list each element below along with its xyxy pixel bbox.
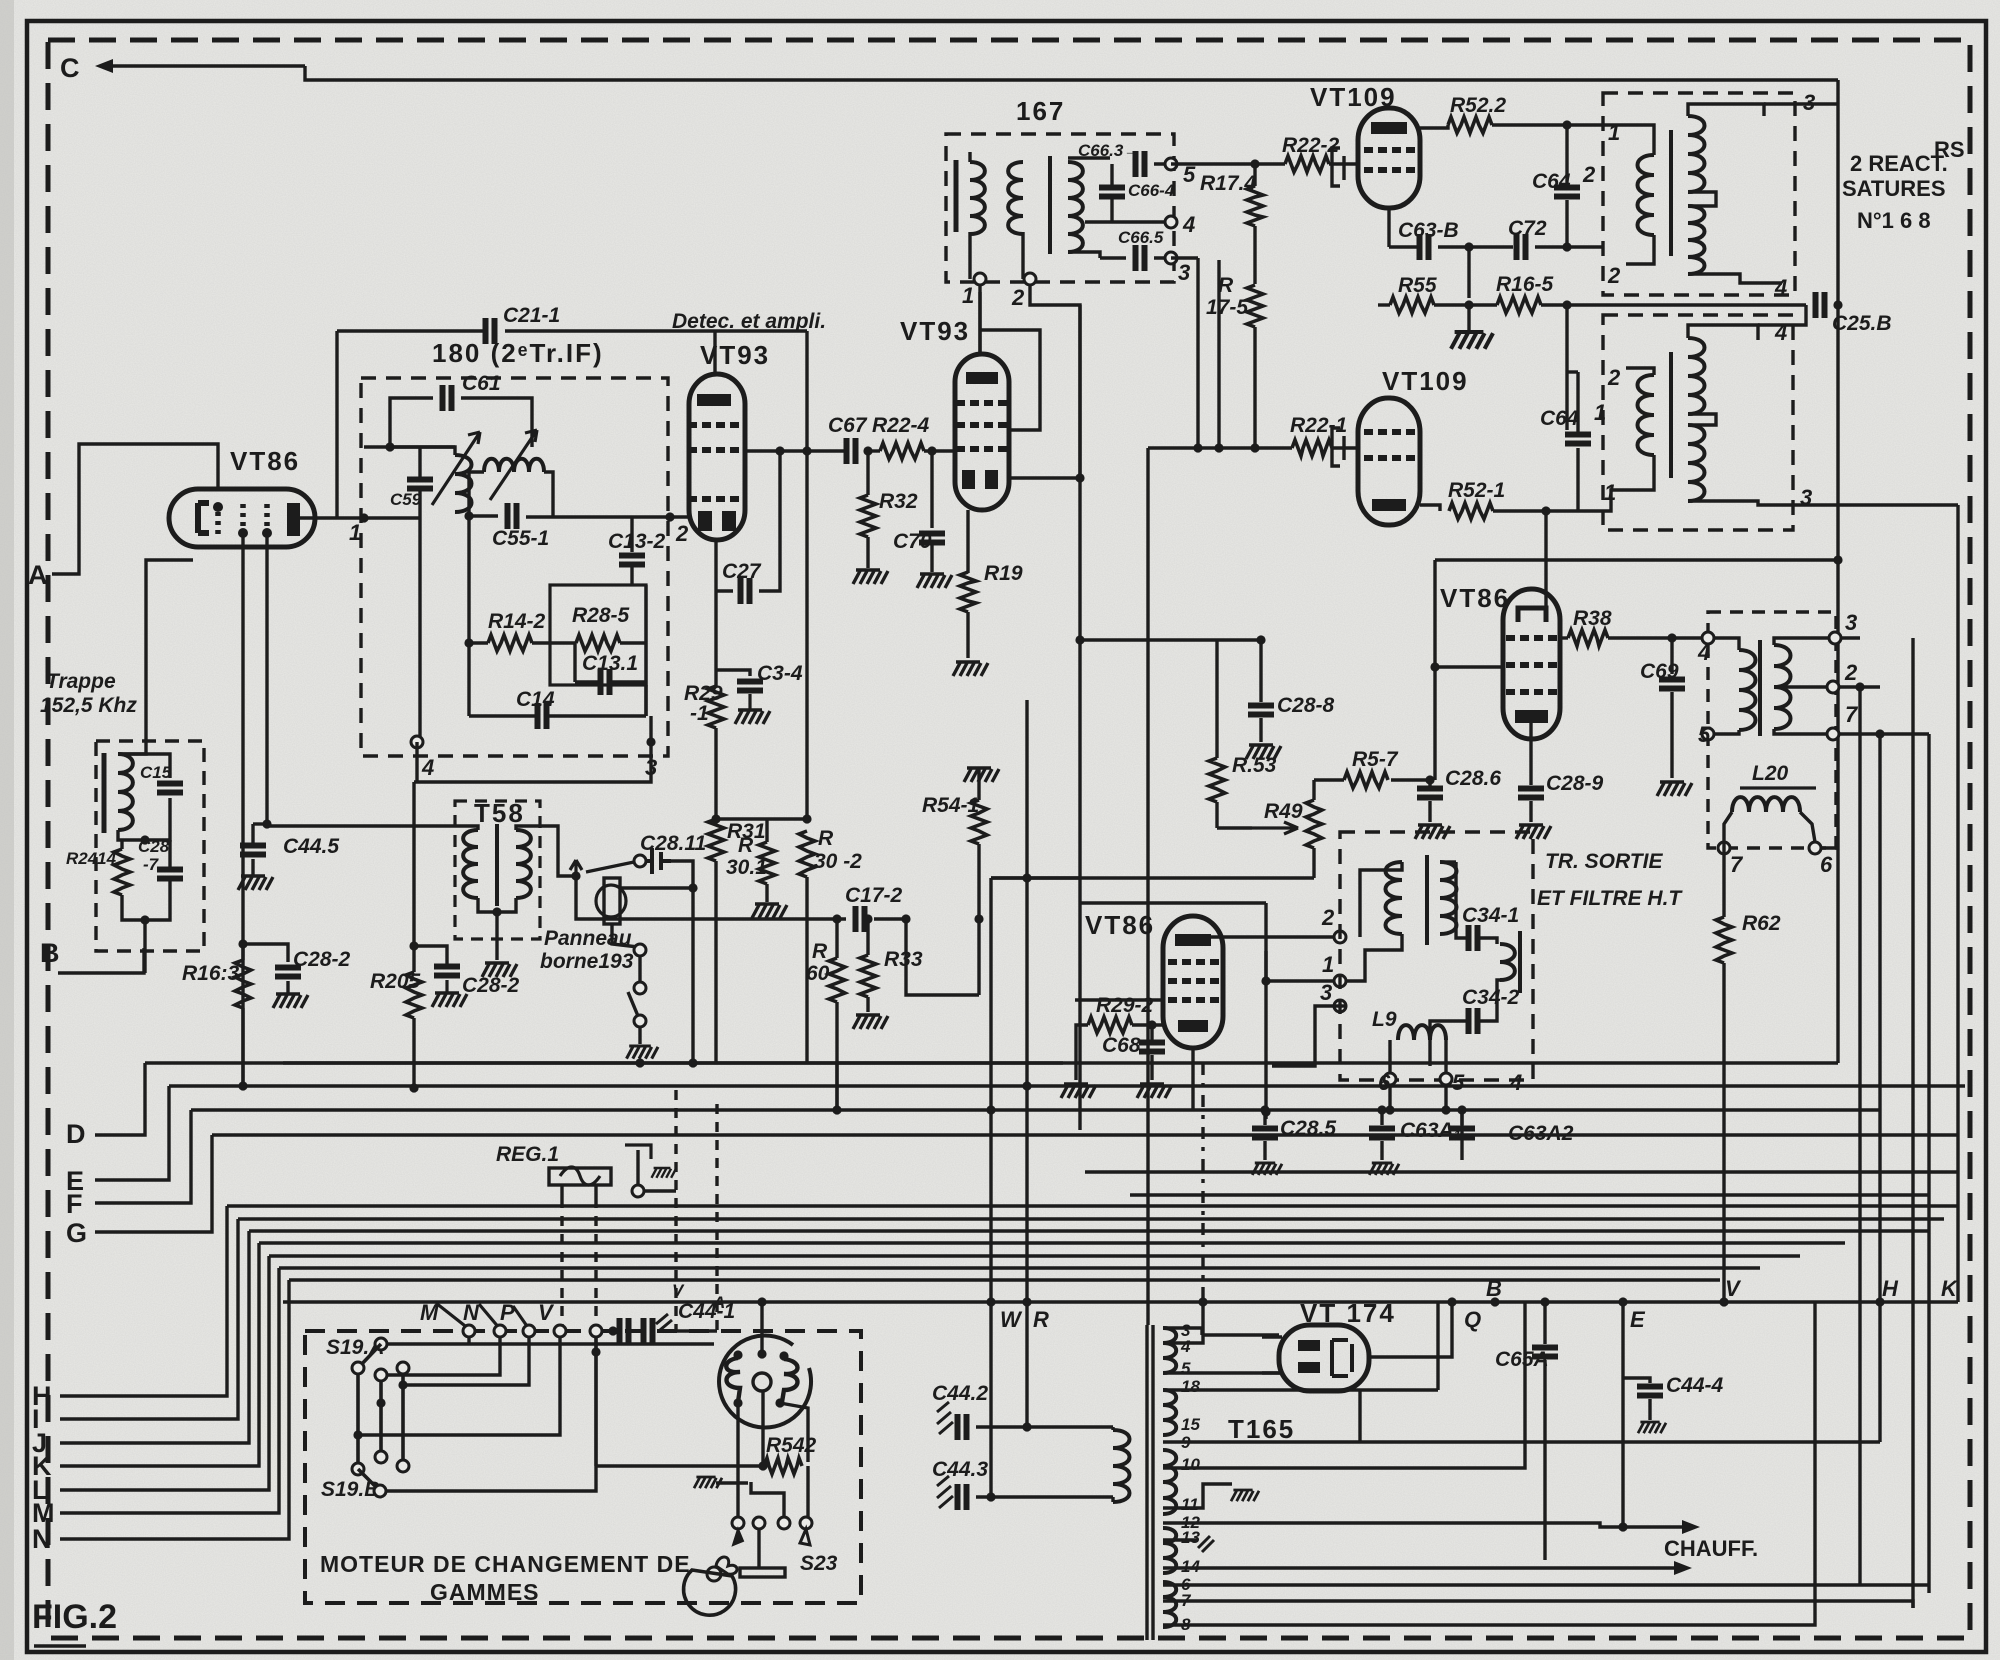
- tube VT86 second anode bracket: [1518, 608, 1546, 622]
- wire C44-2 right: [976, 1425, 1113, 1428]
- capacitor C15: [157, 784, 183, 793]
- tube VT86 third: [1163, 916, 1223, 1048]
- wire long center vertical: [1146, 448, 1149, 1325]
- wire C28-5 top: [1263, 1110, 1266, 1125]
- wire: [1460, 1110, 1463, 1141]
- resistor R14-2: [488, 635, 532, 651]
- junction: [1261, 976, 1270, 985]
- junction C44-5 tap: [262, 819, 271, 828]
- svg-text:2: 2: [1607, 365, 1621, 390]
- bus wire J: [249, 1229, 1930, 1232]
- contact: [397, 1460, 409, 1472]
- tube VT93 first cathode: [698, 511, 712, 531]
- wire tube to R38: [1560, 636, 1568, 639]
- wire C55-1 to node 2: [526, 515, 689, 518]
- wire F riser: [95, 1110, 191, 1203]
- junction: [1430, 662, 1439, 671]
- arrow coil2 tuning: [490, 430, 537, 500]
- junction: [1540, 1297, 1549, 1306]
- resistor R60: [829, 958, 845, 1002]
- wire socket pin down: [736, 1403, 739, 1517]
- coil 167 secondary: [1008, 162, 1023, 234]
- coil T165 w5: [1163, 1582, 1176, 1627]
- ground C69: [1657, 782, 1692, 796]
- svg-text:30 -2: 30 -2: [814, 850, 862, 873]
- wire C69 top: [1670, 638, 1673, 674]
- switch M blade: [436, 1303, 469, 1329]
- svg-text:1: 1: [1322, 952, 1334, 977]
- junction: [986, 1297, 995, 1306]
- svg-text:-7: -7: [143, 855, 160, 874]
- resistor R52-1: [1449, 503, 1493, 519]
- svg-text:FIG.2: FIG.2: [32, 1598, 117, 1636]
- wire C65A top: [1543, 1302, 1546, 1344]
- svg-text:C66.3→: C66.3→: [1078, 141, 1140, 160]
- svg-text:V: V: [1725, 1276, 1742, 1301]
- bus wire K: [259, 1241, 1845, 1244]
- junction: [1147, 1020, 1156, 1029]
- svg-text:R54-1: R54-1: [922, 794, 979, 817]
- svg-text:R22-1: R22-1: [1290, 414, 1347, 437]
- wire to pin3: [649, 716, 652, 742]
- pin 7 L20 box: [1827, 728, 1839, 740]
- tube VT93 first grid2: [688, 447, 739, 453]
- wire R16-5 right: [1541, 303, 1567, 306]
- coil L9: [1398, 1025, 1446, 1040]
- svg-text:5: 5: [1181, 1359, 1191, 1378]
- wire C34-1 left: [1456, 862, 1466, 938]
- wire reactor2 pin1: [1626, 455, 1654, 490]
- switch blade C28-11: [586, 862, 634, 872]
- capacitor C14: [538, 703, 547, 729]
- svg-text:C3-4: C3-4: [757, 662, 803, 685]
- ground R30-1: [752, 904, 787, 918]
- svg-text:180 (2ᵉTr.IF): 180 (2ᵉTr.IF): [432, 338, 604, 368]
- junction: [1193, 443, 1202, 452]
- wire reactor2 mid link: [1688, 414, 1716, 425]
- tube VT93 first: [689, 374, 745, 540]
- wire pin3 to left: [414, 742, 651, 782]
- wire center vertical b: [1078, 305, 1081, 480]
- capacitor C64-2: [1554, 188, 1580, 197]
- wire W above: [989, 1245, 992, 1302]
- coil primary tunable: [455, 455, 472, 512]
- coil trap L: [118, 754, 133, 830]
- resistor R29-2: [1088, 1017, 1132, 1033]
- capacitor C66-4: [1099, 188, 1125, 197]
- tube VT86 first grid3: [264, 504, 270, 528]
- motor rotor: [684, 1570, 736, 1615]
- wire C68 top: [1150, 1025, 1153, 1040]
- junction: [492, 907, 501, 916]
- wire VT86 plate to node 1: [299, 516, 364, 519]
- wire R17-5 bottom: [1253, 327, 1256, 448]
- junction: [863, 446, 872, 455]
- wire to TR pin1: [1266, 903, 1334, 981]
- wire socket to bus: [760, 1302, 763, 1354]
- svg-text:C44.3: C44.3: [932, 1458, 988, 1481]
- wire down to C64-1: [1565, 305, 1568, 430]
- coil T165 w2: [1163, 1390, 1176, 1435]
- svg-text:T165: T165: [1228, 1414, 1295, 1444]
- junction C44-1 left: [608, 1326, 617, 1335]
- wire pin18 riser: [1436, 1302, 1439, 1390]
- resistor R52-2: [1448, 117, 1492, 133]
- svg-text:E: E: [1630, 1307, 1646, 1332]
- junction: [1441, 1105, 1450, 1114]
- wire C70 top: [930, 451, 933, 528]
- svg-text:R52.2: R52.2: [1450, 94, 1506, 117]
- wire VT86 cathode down: [241, 536, 244, 1086]
- wire R32 bottom: [866, 537, 869, 568]
- svg-text:4: 4: [1180, 1337, 1191, 1356]
- contact C28-11: [634, 855, 646, 867]
- wire R52-1 right: [1493, 509, 1578, 512]
- coil L20: [1732, 797, 1800, 812]
- ground C44-5: [238, 876, 273, 890]
- bus wire extra lower: [1130, 1193, 1930, 1196]
- svg-text:P: P: [500, 1300, 515, 1325]
- wire R33 top: [866, 919, 869, 955]
- wire 167 pin2: [1021, 232, 1024, 279]
- svg-text:C28-9: C28-9: [1546, 772, 1604, 795]
- svg-text:C69: C69: [1640, 660, 1679, 683]
- L20 box dashed: [1708, 612, 1836, 848]
- svg-text:6: 6: [1820, 852, 1833, 877]
- reactor2 core: [1669, 352, 1673, 478]
- svg-text:10: 10: [1181, 1455, 1200, 1474]
- junction: [1618, 1297, 1627, 1306]
- T165 core: [1147, 1325, 1153, 1640]
- wire to R29-1: [714, 591, 717, 686]
- wire R38 right: [1608, 636, 1708, 639]
- wire T165 pin10: [1163, 1302, 1525, 1468]
- svg-text:TR. SORTIE: TR. SORTIE: [1545, 850, 1663, 873]
- tube VT86 first grid2: [240, 504, 246, 528]
- wire trap top: [118, 754, 170, 778]
- svg-text:7: 7: [1845, 702, 1859, 727]
- wire C67 to R22-4: [865, 449, 880, 452]
- svg-text:C44-4: C44-4: [1666, 1374, 1724, 1397]
- wire C63-B to C72: [1438, 245, 1513, 248]
- hatch C44-1: [656, 1314, 672, 1330]
- wire T165 pin18: [1163, 1388, 1438, 1391]
- wire T58 top right: [516, 826, 558, 870]
- svg-text:C55-1: C55-1: [492, 527, 549, 550]
- svg-text:H: H: [1882, 1276, 1899, 1301]
- svg-text:Trappe: Trappe: [46, 670, 116, 693]
- tube VT93 second grid1: [956, 400, 1007, 406]
- wire C44-3 right: [976, 1495, 1113, 1498]
- contact S23 a: [732, 1517, 744, 1529]
- wire: [991, 876, 1080, 879]
- wire T165 pin11: [1163, 1484, 1232, 1508]
- wire C66-4 bottom: [1110, 199, 1113, 222]
- svg-text:D: D: [66, 1119, 86, 1149]
- wire reactor2 top link: [1688, 325, 1758, 340]
- wire C63A2 top: [1460, 1110, 1463, 1125]
- wire N drop: [467, 1337, 470, 1344]
- svg-text:C28.6: C28.6: [1445, 767, 1501, 790]
- junction: [1250, 159, 1259, 168]
- wire C61 left: [390, 398, 433, 447]
- wire C64-1 top: [1576, 372, 1579, 432]
- wire D riser: [95, 1063, 145, 1135]
- wire C69 bottom: [1670, 692, 1673, 778]
- wire left slider to V: [358, 1337, 560, 1435]
- tube VT174: [1279, 1325, 1369, 1391]
- resistor R2414: [114, 849, 130, 895]
- capacitor C66-3: [1136, 151, 1145, 177]
- wire vibrator out: [620, 886, 693, 889]
- resistor R55: [1390, 297, 1434, 313]
- wire long vertical right C: [1927, 734, 1930, 1593]
- hatch pin13: [1198, 1536, 1214, 1552]
- wire coil to pin7: [1774, 729, 1827, 734]
- contact S23 c: [778, 1517, 790, 1529]
- tube VT109 first grid cap bracket: [1332, 148, 1344, 186]
- svg-text:R2414: R2414: [66, 849, 117, 868]
- svg-text:VT93: VT93: [900, 316, 970, 346]
- wire grid feed: [1075, 998, 1163, 1001]
- wire coil tap pin2: [1774, 685, 1827, 688]
- wire socket pin to R542: [780, 1403, 808, 1462]
- wire C64-2 top: [1565, 125, 1568, 183]
- wire to R542 row: [596, 1464, 759, 1467]
- contact: [352, 1463, 364, 1475]
- junction: [974, 914, 983, 923]
- wire R29-2 right: [1132, 1023, 1163, 1026]
- svg-text:RS: RS: [1934, 137, 1965, 162]
- svg-text:C44.5: C44.5: [283, 835, 339, 858]
- octal socket pins: [733, 1350, 742, 1359]
- wire C64-1 bottom: [1576, 448, 1579, 511]
- wire C28-6 top: [1428, 780, 1431, 788]
- tube VT86 third grid2: [1168, 978, 1219, 984]
- svg-text:N°1 6 8: N°1 6 8: [1857, 208, 1931, 233]
- svg-text:2: 2: [1844, 660, 1858, 685]
- svg-text:R14-2: R14-2: [488, 610, 546, 633]
- wire R53 to R49: [1217, 826, 1252, 829]
- wire K riser: [60, 1243, 259, 1466]
- svg-text:13: 13: [1181, 1528, 1200, 1547]
- coil L20 trans left: [1739, 650, 1756, 730]
- junction: [1022, 1422, 1031, 1431]
- wire C34-1 right: [1480, 938, 1497, 944]
- svg-text:CHAUFF.: CHAUFF.: [1664, 1536, 1758, 1561]
- junction: [1256, 635, 1265, 644]
- wire T165 pin8: [1163, 1608, 1815, 1625]
- hatch C44-2: [937, 1402, 953, 1434]
- resistor R17-4: [1247, 186, 1263, 226]
- coil T165 w4: [1163, 1528, 1176, 1573]
- svg-text:R5-7: R5-7: [1352, 748, 1399, 771]
- wire 167 pin1: [968, 232, 971, 279]
- S23 blade d: [800, 1529, 810, 1545]
- resistor R62: [1716, 917, 1732, 963]
- capacitor C21-1: [486, 318, 495, 344]
- contact S19A bottom: [352, 1362, 364, 1374]
- svg-text:B: B: [40, 938, 60, 968]
- tube VT109 first grid1: [1364, 147, 1415, 153]
- wire: [286, 981, 289, 994]
- wire L9 right: [1444, 1040, 1447, 1073]
- bus wire I: [238, 1217, 1944, 1220]
- wire to trappe box: [146, 560, 193, 741]
- wire C14 left: [469, 714, 537, 717]
- svg-text:2: 2: [1582, 162, 1596, 187]
- svg-text:R52-1: R52-1: [1448, 479, 1505, 502]
- wire VT174 in top: [1262, 1335, 1282, 1338]
- pin 3 of 167: [1165, 252, 1177, 264]
- wire node1 to C59: [364, 516, 420, 519]
- wire R22-4 to VT93 second: [924, 449, 955, 452]
- wire VT93 second out: [1008, 476, 1080, 479]
- svg-text:2: 2: [1607, 263, 1621, 288]
- wire pin4 coil: [1714, 638, 1739, 650]
- wire C63A2 bottom: [1460, 1141, 1463, 1160]
- wire C28-6 down: [1428, 801, 1431, 822]
- contact P: [494, 1325, 506, 1337]
- junction node 1: [359, 513, 368, 522]
- wire: [1080, 638, 1261, 641]
- svg-text:C61: C61: [462, 372, 501, 395]
- wire A to VT86 grid: [52, 444, 218, 574]
- wire C34-2 left: [1430, 1021, 1466, 1066]
- ground R54-1 top: [964, 768, 999, 782]
- svg-text:15: 15: [1181, 1415, 1200, 1434]
- ground S23: [694, 1477, 722, 1488]
- junction: [986, 1492, 995, 1501]
- wire C14 right: [548, 714, 646, 717]
- REG1 switch contact: [632, 1185, 644, 1197]
- wire R49 bottom: [1312, 848, 1315, 878]
- wire R2414 top: [120, 840, 123, 849]
- wire VT86 third plate feed: [1080, 901, 1266, 904]
- resistor R33: [860, 955, 876, 997]
- svg-text:C34-1: C34-1: [1462, 904, 1519, 927]
- junction: [1214, 443, 1223, 452]
- L20 underline: [1740, 786, 1816, 789]
- wire pin2 to TR coil: [1360, 862, 1402, 937]
- wire C17-2 out: [874, 919, 979, 995]
- contact A: [590, 1325, 602, 1337]
- tube VT86 second grid1: [1506, 635, 1557, 641]
- figure label underline: [34, 1644, 86, 1647]
- wire to C66-5: [1068, 252, 1100, 258]
- svg-text:R29-2: R29-2: [1096, 994, 1154, 1017]
- wire grid top: [364, 445, 420, 448]
- svg-text:3: 3: [1320, 980, 1332, 1005]
- wire R49 bottom rail: [991, 876, 1314, 879]
- svg-text:S23: S23: [800, 1552, 838, 1575]
- wire to C25-B: [1567, 303, 1806, 306]
- svg-text:C63-B: C63-B: [1398, 219, 1459, 242]
- svg-text:18: 18: [1181, 1377, 1200, 1396]
- wire C61 right: [461, 398, 532, 447]
- coil secondary tunable: [484, 459, 544, 472]
- wire: [251, 859, 254, 876]
- wire right rail of 180 box: [644, 585, 647, 716]
- wire C64-2 bottom: [1565, 200, 1568, 247]
- tube VT93 first grid1: [688, 422, 739, 428]
- wire R55 left: [1378, 303, 1390, 306]
- wire R30-2 bottom to bus: [805, 877, 808, 1063]
- wire long vertical right E: [1878, 734, 1881, 1442]
- REG1 fuse curve: [560, 1167, 600, 1185]
- bus wire N: [289, 1278, 1720, 1281]
- wire R29-2 left down: [1076, 1025, 1088, 1080]
- tube VT93 second: [955, 354, 1009, 510]
- svg-text:C34-2: C34-2: [1462, 986, 1520, 1009]
- wire T58 top left: [266, 826, 478, 830]
- wire to C28-2: [243, 944, 288, 962]
- wire C21-1 riser: [335, 331, 338, 518]
- svg-text:MOTEUR DE CHANGEMENT DE: MOTEUR DE CHANGEMENT DE: [320, 1551, 691, 1577]
- coil T165 w3: [1163, 1450, 1176, 1514]
- wire C to right: [305, 66, 1838, 80]
- junction: [464, 638, 473, 647]
- wire C28-8 top: [1259, 640, 1262, 702]
- octal socket center: [753, 1373, 771, 1391]
- wire to reactor pin1: [1578, 490, 1626, 511]
- capacitor C28-5: [1252, 1129, 1278, 1138]
- svg-text:2: 2: [675, 521, 689, 546]
- junction: [1719, 1297, 1728, 1306]
- wire I riser: [60, 1219, 238, 1419]
- resistor R16-5: [1497, 297, 1541, 313]
- wire coil bottom: [1111, 1497, 1114, 1502]
- L20 core: [1758, 640, 1762, 736]
- junction slider right: [398, 1380, 407, 1389]
- junction: [1833, 300, 1842, 309]
- wire C34-2 right: [1480, 980, 1500, 1021]
- motor box dashed: [305, 1331, 861, 1603]
- wire tube to R52-2: [1420, 125, 1448, 128]
- coil L20 trans right: [1774, 645, 1791, 729]
- junction: [688, 1058, 697, 1067]
- wire VT109 first bottom: [1387, 208, 1390, 247]
- wire C27 to grid rail: [759, 451, 780, 591]
- wire C13-1 left: [575, 680, 600, 683]
- wire L riser: [60, 1256, 269, 1490]
- tube VT109 second grid cap bracket: [1332, 428, 1344, 466]
- junction: [802, 446, 811, 455]
- svg-text:C15: C15: [140, 763, 172, 782]
- TR sortie box dashed: [1340, 832, 1533, 1080]
- resistor R38: [1568, 630, 1608, 646]
- coil 167 primary: [970, 162, 985, 234]
- wire R22-2 to tube: [1329, 162, 1358, 165]
- tube VT109 second anode: [1372, 499, 1406, 511]
- wire reactor2 pin4 up: [1758, 305, 1806, 325]
- junction: [901, 914, 910, 923]
- svg-text:Panneau: Panneau: [544, 927, 632, 950]
- tube VT86 third grid3: [1168, 997, 1219, 1003]
- resistor R29-1: [708, 686, 724, 728]
- ground pin11: [1231, 1490, 1259, 1501]
- svg-text:C: C: [60, 53, 80, 83]
- feedback box: [550, 585, 646, 685]
- svg-text:W: W: [1000, 1307, 1023, 1332]
- wire pin5 down: [1444, 1085, 1447, 1110]
- wire reactor1 mid link: [1688, 192, 1716, 206]
- resistor R17-5: [1247, 285, 1263, 327]
- junction: [571, 871, 580, 880]
- svg-text:C70: C70: [893, 530, 932, 553]
- wire R33 bottom: [866, 997, 869, 1012]
- wire vibrator to switch: [612, 924, 638, 947]
